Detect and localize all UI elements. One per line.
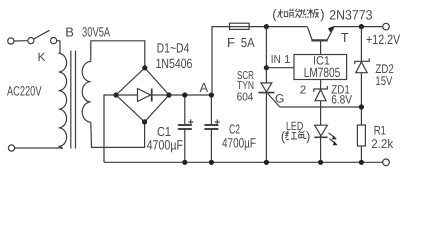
node bridge left <box>113 92 118 97</box>
node IN junction <box>264 65 269 70</box>
svg-text:1: 1 <box>284 54 290 66</box>
bridge rectifier D1~D4 <box>116 68 169 122</box>
wire ZD2 to gate junction <box>360 73 362 125</box>
wire R1 bottom <box>360 146 362 162</box>
node fuse SCR junction <box>264 24 269 29</box>
wire secondary bottom to bridge <box>91 122 145 147</box>
node R1 bottom <box>359 160 364 165</box>
label red color note <box>281 129 311 144</box>
wire gate line <box>280 106 362 108</box>
svg-text:LM7805: LM7805 <box>304 65 341 80</box>
transformer secondary winding <box>82 62 91 123</box>
svg-text:2N3773: 2N3773 <box>329 7 372 22</box>
svg-text:2.2k: 2.2k <box>371 137 394 151</box>
svg-text:K: K <box>38 50 46 64</box>
node bridge top <box>142 65 147 70</box>
node SCR bottom <box>264 160 269 165</box>
svg-text:2: 2 <box>300 85 306 97</box>
svg-text:4700µF: 4700µF <box>147 138 183 153</box>
capacitor C1 <box>178 95 194 162</box>
node LED bottom <box>318 160 323 165</box>
wire <box>14 40 28 42</box>
output terminal +12.2V <box>383 23 390 30</box>
svg-text:G: G <box>275 92 284 106</box>
svg-text:D1~D4: D1~D4 <box>157 41 190 56</box>
transformer core <box>71 51 76 149</box>
wire fuse to transistor collector <box>230 26 308 28</box>
wire DC positive <box>169 94 211 96</box>
svg-text:AC220V: AC220V <box>7 84 42 99</box>
node C1 top <box>182 92 187 97</box>
svg-text:IN: IN <box>271 54 281 66</box>
wire IN pin1 <box>266 67 294 69</box>
svg-text:(: ( <box>272 6 277 21</box>
svg-text:TYN: TYN <box>237 80 254 92</box>
svg-text:30V5A: 30V5A <box>82 24 110 39</box>
svg-text:R1: R1 <box>374 124 386 138</box>
wire bottom rail <box>104 161 383 163</box>
svg-text:C2: C2 <box>229 122 240 137</box>
switch K <box>28 30 57 43</box>
svg-text:(: ( <box>281 129 286 144</box>
node bridge bottom <box>142 119 147 124</box>
fuse F <box>230 23 250 29</box>
node output rail junction <box>359 24 364 29</box>
svg-text:): ) <box>320 6 324 21</box>
node C2 bottom <box>209 160 214 165</box>
wire riser node A to fuse <box>212 27 230 95</box>
wire pin2 <box>320 80 322 90</box>
zener ZD2 <box>355 59 369 73</box>
svg-text:LED: LED <box>286 119 303 133</box>
svg-text:+12.2V: +12.2V <box>366 32 400 47</box>
wire SCR anode <box>265 27 267 83</box>
AC input terminal bottom <box>8 145 14 151</box>
wire LED cathode <box>320 136 322 162</box>
wire SCR cathode <box>265 93 267 163</box>
svg-text:6.8V: 6.8V <box>331 93 352 107</box>
svg-text:A: A <box>200 80 209 95</box>
svg-text:4700µF: 4700µF <box>222 136 256 151</box>
node C1 bottom <box>182 160 187 165</box>
LED <box>314 125 337 145</box>
AC input terminal top <box>8 38 14 44</box>
wire DC negative down <box>104 95 116 162</box>
node bridge right <box>166 92 171 97</box>
transistor T 2N3773 <box>308 26 335 55</box>
resistor R1 <box>357 125 365 146</box>
svg-text:604: 604 <box>237 92 254 104</box>
wire <box>57 41 60 54</box>
label heatsink note <box>272 6 324 21</box>
wire ZD1 to LED <box>320 101 322 126</box>
svg-text:B: B <box>65 24 74 39</box>
svg-text:): ) <box>306 129 310 144</box>
svg-text:1N5406: 1N5406 <box>156 56 193 71</box>
wire emitter to output <box>334 26 383 28</box>
svg-text:5A: 5A <box>241 35 255 50</box>
thyristor SCR TYN604 <box>258 83 279 107</box>
node A junction <box>209 92 214 97</box>
transformer primary winding <box>59 53 67 146</box>
wire <box>15 146 63 149</box>
svg-text:C1: C1 <box>157 124 171 139</box>
wire secondary top to bridge <box>91 41 145 66</box>
svg-text:F: F <box>227 35 235 50</box>
wire ZD2 top <box>360 27 362 62</box>
svg-text:15V: 15V <box>375 74 392 88</box>
output terminal negative <box>383 159 390 166</box>
IC IC1 LM7805 <box>294 55 347 80</box>
svg-text:T: T <box>341 30 349 45</box>
node gate junction <box>359 104 364 109</box>
capacitor C2 <box>204 95 219 162</box>
zener ZD1 <box>314 86 328 101</box>
